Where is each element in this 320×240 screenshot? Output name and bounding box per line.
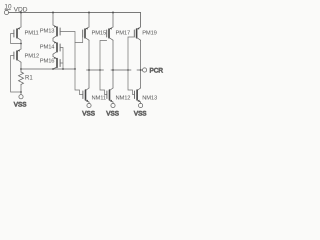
wire PM12 gate to VSS node <box>11 56 21 93</box>
node N1 junction at gate bus <box>62 68 64 70</box>
wire stage2 output <box>111 69 131 71</box>
svg-text:VDD: VDD <box>14 7 28 14</box>
wire PM15 drain to NM11 drain <box>88 40 90 88</box>
node stage2 out at PM19 gate bus <box>127 69 129 71</box>
wire NM11 source to VSS <box>88 102 90 103</box>
node VDD junction at PM15 column <box>88 12 90 14</box>
terminal PCR <box>143 68 147 72</box>
svg-text:VSS: VSS <box>14 102 27 109</box>
node stage1 out at PM17 gate bus <box>99 69 101 71</box>
wire VDD to PM13 source <box>52 13 54 26</box>
ground VSS (NM13) <box>139 103 143 107</box>
node stage1 out at PM15 column <box>88 69 90 71</box>
node VDD junction at PM17 column <box>112 12 114 14</box>
wire PM17 gate bus <box>100 41 107 95</box>
node N1 junction at PM13 gate bus <box>74 68 76 70</box>
ground VSS (NM12) <box>111 103 115 107</box>
wire PM19 drain to NM13 drain <box>140 40 142 88</box>
wire PM13 gate to node N1 bus <box>60 32 75 70</box>
svg-text:NM12: NM12 <box>116 96 131 102</box>
node N1 junction at R1 top <box>20 68 22 70</box>
node VDD junction at PM13 column <box>52 12 54 14</box>
wire PM11 gate to drain (diode connection) <box>11 34 21 44</box>
wire PM14 gate to node N1 bus <box>60 48 63 70</box>
svg-text:NM13: NM13 <box>142 96 157 102</box>
node stage2 out at PM17 column <box>112 69 114 71</box>
wire VDD to PM11 source <box>20 13 22 28</box>
wire PM14 drain to PM16 source <box>52 54 54 56</box>
node VDD junction at PM11 column <box>20 12 22 14</box>
wire N1 bus down to NM11 gate <box>75 69 83 95</box>
svg-text:PM12: PM12 <box>25 54 40 60</box>
wire PM17 drain to NM12 drain <box>112 40 114 88</box>
svg-text:NM11: NM11 <box>92 96 106 102</box>
wire N1 to PM15 gate <box>75 37 83 43</box>
svg-text:VSS: VSS <box>82 110 95 117</box>
wire R1 to VSS <box>20 84 22 94</box>
wire stage1 output <box>87 69 104 71</box>
svg-text:PM19: PM19 <box>142 31 157 37</box>
ground VSS (NM11) <box>87 103 91 107</box>
wire NM12 source to VSS <box>112 102 114 103</box>
transistor NM11 <box>83 88 89 102</box>
wire PM13 drain to PM14 source <box>52 38 54 41</box>
node stage3 out junction <box>140 69 142 71</box>
svg-text:PM11: PM11 <box>25 31 39 37</box>
svg-text:VSS: VSS <box>106 110 119 117</box>
wire NM13 source to VSS <box>140 102 142 103</box>
svg-text:PM13: PM13 <box>40 29 55 35</box>
svg-text:PM15: PM15 <box>92 31 107 37</box>
transistor NM12 <box>107 88 113 102</box>
svg-text:R1: R1 <box>25 76 33 82</box>
ground VSS (left) <box>19 95 23 99</box>
svg-text:PM16: PM16 <box>40 59 55 65</box>
wire VDD to PM17 source <box>112 13 114 28</box>
transistor PM19 <box>134 27 140 40</box>
node N1 junction at PM16 drain <box>52 68 54 70</box>
transistor PM12 <box>14 49 21 62</box>
svg-text:PCR: PCR <box>150 67 164 74</box>
wire node N1 horizontal <box>21 68 75 70</box>
wire PM16 gate lead <box>60 62 63 64</box>
wire PM12 drain to R1 <box>20 62 22 72</box>
wire VDD rail <box>9 13 141 28</box>
transistor PM15 <box>83 27 89 40</box>
transistor PM17 <box>107 27 113 40</box>
wire stage3 output to PCR <box>137 69 142 71</box>
wire PM11 drain to PM12 source <box>20 40 22 49</box>
svg-text:PM14: PM14 <box>40 45 55 51</box>
resistor R1 <box>19 72 24 84</box>
svg-text:PM17: PM17 <box>116 31 131 37</box>
terminal 10 VDD <box>4 10 8 14</box>
wire VDD to PM15 source <box>88 13 90 28</box>
transistor PM14 <box>53 41 60 54</box>
transistor PM13 <box>53 25 60 38</box>
node PM11 drain junction <box>20 43 22 45</box>
node PM12 gate return junction <box>20 91 22 93</box>
transistor PM16 <box>53 57 60 70</box>
wire PM19 gate bus <box>128 37 134 95</box>
svg-text:VSS: VSS <box>134 110 147 117</box>
transistor NM13 <box>135 88 141 102</box>
transistor PM11 <box>14 27 21 40</box>
